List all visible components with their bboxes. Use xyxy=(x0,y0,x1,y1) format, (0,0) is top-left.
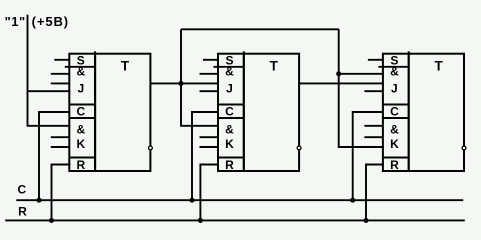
wire T2 input stub K-gate pin 3 xyxy=(200,146,219,148)
wire T1 input stub K-gate pin 2 xyxy=(51,136,70,138)
flip-flop T1 cell divider S/&amp; (with left overshoot) xyxy=(65,66,95,68)
wire T2 input stub K-gate pin 2 xyxy=(200,136,219,138)
wire branch from logic-1 rail to DD1 J pin xyxy=(28,90,71,92)
svg-text:(+5В): (+5В) xyxy=(32,14,69,29)
flip-flop T3 inverted output circle xyxy=(462,146,466,150)
flip-flop T3 cell divider C/&amp; xyxy=(383,117,409,119)
wire vertical branch at Q1 node down to T2 K-gate pin 1 xyxy=(181,29,219,126)
wire T1 input stub J-gate pin 1 xyxy=(51,73,70,75)
wire T3 input stub S xyxy=(368,59,383,61)
svg-text:&: & xyxy=(225,65,234,79)
flip-flop T2 cell divider C/&amp; xyxy=(218,117,244,119)
flip-flop T1 main body box xyxy=(95,54,150,171)
wire logic-1 rail from +5V down to DD1 K-gate pin xyxy=(28,15,71,126)
svg-text:J: J xyxy=(77,81,84,95)
wire branch to T3 J-gate pin 1 xyxy=(339,73,384,75)
svg-text:R: R xyxy=(76,158,85,172)
junction T3 C on bus xyxy=(350,198,355,203)
wire T3 input stub J pin xyxy=(364,90,383,92)
svg-text:C: C xyxy=(17,183,26,197)
svg-text:J: J xyxy=(391,81,398,95)
svg-text:K: K xyxy=(390,137,399,151)
svg-text:C: C xyxy=(76,105,85,119)
flip-flop T2 main body box xyxy=(244,54,299,171)
flip-flop T2 body top-left corner tick xyxy=(243,51,245,53)
junction T3 J-gate node xyxy=(336,71,341,76)
wire T1 reset R from R bus xyxy=(52,165,71,221)
svg-text:&: & xyxy=(390,65,399,79)
wire T2 input stub J-gate pin 1 xyxy=(200,73,219,75)
flip-flop T1 body top-left corner tick xyxy=(94,51,96,53)
flip-flop T3 control-field box (S &amp; J C &amp; K R column) xyxy=(383,54,409,171)
flip-flop T1 inverted output circle xyxy=(149,146,153,150)
svg-text:C: C xyxy=(390,105,399,119)
junction T2 R on bus xyxy=(198,218,203,223)
wire T2 reset R from R bus xyxy=(200,165,219,221)
flip-flop T2 cell divider S/&amp; (with left overshoot) xyxy=(214,66,244,68)
wire T3 clock C from C bus xyxy=(353,112,384,200)
svg-text:K: K xyxy=(225,137,234,151)
wire R reset bus xyxy=(5,219,465,221)
svg-text:K: K xyxy=(76,137,85,151)
flip-flop T3 cell divider K/R xyxy=(383,157,409,159)
wire T3 input stub K-gate pin 2 xyxy=(364,136,383,138)
flip-flop T1 cell divider J/C xyxy=(69,104,95,106)
wire T1 input stub S xyxy=(54,59,69,61)
svg-text:C: C xyxy=(225,105,234,119)
svg-text:&: & xyxy=(76,123,85,137)
flip-flop T1 cell divider C/&amp; xyxy=(69,117,95,119)
svg-text:R: R xyxy=(18,205,27,219)
svg-text:&: & xyxy=(390,123,399,137)
flip-flop T2 cell divider J/C xyxy=(218,104,244,106)
flip-flop T1 control-field box (S &amp; J C &amp; K R column) xyxy=(69,54,95,171)
wire C clock bus xyxy=(16,199,463,201)
wire T2 input stub J pin xyxy=(200,90,219,92)
wire Q2: T2 output to T3 J-gate pin 2 xyxy=(299,82,384,84)
flip-flop T3 cell divider S/&amp; (with left overshoot) xyxy=(378,66,408,68)
svg-text:T: T xyxy=(121,58,130,73)
svg-text:J: J xyxy=(226,81,233,95)
junction T1 C on bus xyxy=(36,198,41,203)
flip-flop T3 cell divider J/C xyxy=(383,104,409,106)
svg-text:&: & xyxy=(76,65,85,79)
svg-text:R: R xyxy=(225,158,234,172)
wire T2 input stub S xyxy=(203,59,218,61)
wire T3 input stub K-gate pin 1 xyxy=(364,125,383,127)
wire vertical branch from top rail down to T3 K-gate pin 3 xyxy=(339,29,384,147)
junction T1 R on bus xyxy=(49,218,54,223)
svg-text:T: T xyxy=(434,58,443,73)
flip-flop T3 main body box xyxy=(409,54,464,171)
wire Q1: T1 output to T2 J-gate pin 2 xyxy=(150,82,219,84)
wire T3 reset R from R bus xyxy=(366,165,384,221)
flip-flop T2 inverted output circle xyxy=(297,146,301,150)
wire top carry rail (Q1 feed-forward to T3) xyxy=(181,28,339,30)
flip-flop T1 cell divider K/R xyxy=(69,157,95,159)
flip-flop T3 body top-left corner tick xyxy=(408,51,410,53)
wire T2 clock C from C bus xyxy=(192,112,219,200)
wire T1 input stub J-gate pin 2 xyxy=(51,82,70,84)
wire T1 clock C from C bus xyxy=(39,112,70,200)
wire T1 input stub K-gate pin 3 xyxy=(51,146,70,148)
junction Q1 node xyxy=(178,81,183,86)
svg-text:T: T xyxy=(270,58,279,73)
svg-text:R: R xyxy=(390,158,399,172)
junction T2 C on bus xyxy=(189,198,194,203)
junction T3 R on bus xyxy=(363,218,368,223)
svg-text:"1": "1" xyxy=(5,14,26,29)
flip-flop T2 cell divider K/R xyxy=(218,157,244,159)
flip-flop T2 control-field box (S &amp; J C &amp; K R column) xyxy=(218,54,244,171)
svg-text:&: & xyxy=(225,123,234,137)
